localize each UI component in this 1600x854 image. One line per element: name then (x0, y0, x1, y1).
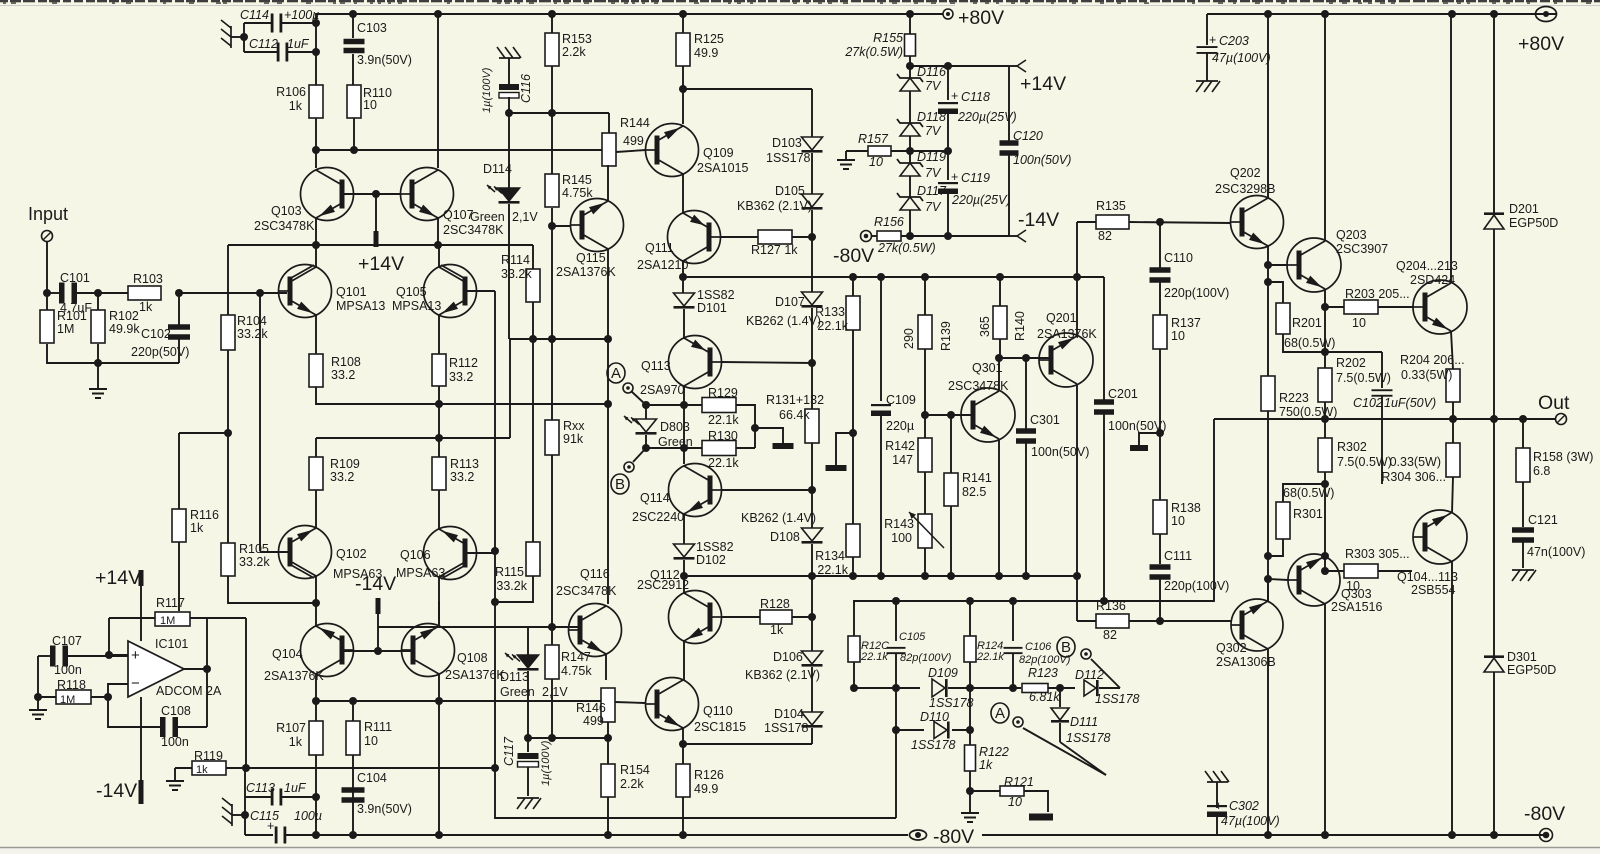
node R135/C110 (1156, 218, 1164, 226)
svg-text:C201: C201 (1108, 387, 1138, 401)
wire R126 down (682, 797, 684, 835)
svg-text:82.5: 82.5 (962, 485, 986, 499)
svg-text:C102: C102 (1353, 396, 1383, 410)
resistor R204 (1446, 369, 1460, 402)
node Out R202 (1321, 415, 1329, 423)
resistor R139 (924, 277, 926, 315)
wire R120 top (853, 601, 855, 636)
svg-text:220p(100V): 220p(100V) (1164, 286, 1229, 300)
wire row433 (179, 432, 228, 434)
svg-text:Q113: Q113 (641, 359, 671, 373)
svg-text:2SC2912: 2SC2912 (637, 578, 689, 592)
transistor Q103 2SC3478K (301, 168, 354, 221)
resistor R153 (551, 14, 553, 33)
svg-text:Q114: Q114 (640, 491, 670, 505)
wire Q104/Q108 base row (343, 650, 411, 652)
wire +80V top bus right (1207, 13, 1556, 15)
wire R112 down (438, 386, 440, 404)
wire Q103 base row (343, 193, 401, 195)
svg-text:49.9: 49.9 (694, 46, 718, 60)
wire D107-R131 (811, 308, 813, 409)
ground C117 (517, 797, 539, 799)
wire R140 down (999, 339, 1001, 358)
svg-text:2SC3478K: 2SC3478K (443, 223, 504, 237)
node row688 R124 (966, 684, 974, 692)
svg-text:R119: R119 (194, 749, 223, 763)
resistor R135 row (1077, 221, 1096, 223)
svg-text:D105: D105 (775, 184, 805, 198)
node rail D301 (1490, 831, 1498, 839)
wire R303 row (1325, 570, 1344, 572)
node R113 row438 (435, 434, 443, 442)
wire R201 bottom (1283, 334, 1325, 352)
svg-text:D106: D106 (773, 650, 803, 664)
node bus Q203 (1321, 10, 1329, 18)
svg-text:1SS82: 1SS82 (697, 288, 735, 302)
ground C121 (1512, 569, 1534, 571)
wire D106-D104 (811, 667, 813, 712)
wire R139 down (924, 349, 926, 438)
node C104 rail (349, 831, 357, 839)
wire Q201 emitter top (1076, 222, 1078, 336)
node row730 left (892, 726, 900, 734)
node D803 top (642, 401, 650, 409)
resistor R110 (347, 85, 361, 118)
svg-text:A: A (611, 365, 621, 382)
svg-text:Q115: Q115 (576, 251, 606, 265)
wire gnd bar stub (836, 433, 853, 465)
resistor R303 (1344, 564, 1378, 578)
wire IC101 power (140, 586, 142, 641)
rail +14V tap (375, 194, 377, 231)
wire Q301 emitter (998, 439, 1000, 575)
resistor R108 (309, 354, 323, 387)
wire row448 (646, 447, 702, 449)
wire bar tap (755, 428, 783, 443)
resistor R117 (155, 612, 190, 626)
node rail601 R124 (966, 597, 974, 605)
svg-text:R145: R145 (562, 173, 592, 187)
node R201 tap (1264, 278, 1272, 286)
wire Q110 emitter (682, 728, 684, 744)
wire R106/R110 bottom row (315, 118, 317, 150)
node Q203 base tap (1264, 261, 1272, 269)
resistor R109 (309, 457, 323, 490)
svg-text:2SD424: 2SD424 (1410, 273, 1455, 287)
svg-text:220µ(25V): 220µ(25V) (951, 193, 1011, 207)
node rail Q302 (1264, 831, 1272, 839)
resistor R115 (526, 542, 540, 576)
svg-text:R140: R140 (1013, 311, 1027, 341)
wire C118 branch (910, 65, 948, 67)
node R121 row (966, 787, 974, 795)
op-amp IC101 ADCOM 2A (128, 641, 184, 697)
wire Q301 collector (998, 358, 1000, 391)
svg-text:1M: 1M (160, 615, 175, 627)
svg-text:Q111: Q111 (645, 241, 674, 255)
wire Q201 base row (999, 357, 1050, 359)
wire R303 right (1378, 570, 1412, 572)
svg-text:1M: 1M (57, 322, 74, 336)
node Q110 emitter row (679, 740, 687, 748)
svg-text:R115: R115 (495, 565, 524, 579)
capacitor C116 (499, 84, 519, 90)
svg-text:R127 1k: R127 1k (751, 243, 798, 257)
node bus277 R140 (996, 273, 1004, 281)
resistor R102 (97, 293, 99, 310)
svg-text:10: 10 (1171, 514, 1185, 528)
wire Q202 collector (1267, 14, 1269, 198)
svg-text:+80V: +80V (1518, 33, 1564, 55)
wire Q104H collector (1451, 561, 1453, 835)
svg-text:R128: R128 (760, 597, 790, 611)
wire opamp plus input (109, 618, 128, 655)
wire -14V row (901, 235, 1009, 237)
border top ruler strip (0, 0, 8, 2)
svg-text:MPSA13: MPSA13 (392, 299, 441, 313)
wire Q105 base (466, 290, 495, 292)
node C118 top (944, 62, 952, 70)
transistor Q111 2SA1210 (668, 211, 721, 264)
wire C119 down (947, 193, 949, 236)
wire gnd bar right stub (1139, 433, 1160, 445)
node bus575 (680, 572, 688, 580)
wire R155 down (909, 56, 911, 78)
wire D105-D107 (811, 210, 813, 292)
node R115/base tie (491, 598, 499, 606)
svg-text:R203 205...: R203 205... (1345, 287, 1410, 301)
resistor R131+132 (805, 409, 819, 443)
svg-text:2.2k: 2.2k (620, 777, 644, 791)
svg-text:C101: C101 (60, 271, 90, 285)
wire R123 right (1048, 687, 1075, 689)
transistor Q107 2SC3478K (401, 168, 454, 221)
wire Q107 collector to +80V (437, 14, 439, 168)
node opamp out (203, 665, 211, 673)
resistor R158 (1522, 419, 1524, 448)
wire R302 top (1324, 419, 1326, 438)
diode D105 KB362 (802, 194, 823, 207)
capacitor C107 (38, 655, 51, 657)
svg-text:Q203: Q203 (1336, 228, 1367, 242)
wire feedback down (259, 293, 261, 551)
svg-text:R146: R146 (576, 701, 606, 715)
wire R120 down (853, 662, 855, 688)
wire base tie Q105-Q106 (494, 291, 496, 551)
capacitor C301 (1025, 358, 1027, 429)
wire opamp out (184, 668, 207, 670)
wire A diag bottom (1023, 728, 1106, 775)
node row688 R120 (850, 684, 858, 692)
node row404 right (604, 400, 612, 408)
svg-text:D119: D119 (917, 150, 946, 164)
svg-text:-14V: -14V (355, 573, 396, 595)
node base feedback (491, 764, 499, 772)
svg-text:C203: C203 (1219, 34, 1249, 48)
svg-text:365: 365 (978, 316, 992, 337)
node bus277 R139 (921, 273, 929, 281)
wire R155 top (909, 14, 911, 34)
node Q107 collector bus (434, 10, 442, 18)
svg-text:R101: R101 (57, 309, 87, 323)
svg-text:Q109: Q109 (703, 146, 734, 160)
svg-text:+: + (951, 89, 958, 103)
svg-text:3.9n(50V): 3.9n(50V) (357, 802, 412, 816)
svg-text:22.1k: 22.1k (817, 319, 848, 333)
svg-text:KB362 (2.1V): KB362 (2.1V) (737, 199, 812, 213)
resistor R134 (846, 524, 860, 557)
node bus575 C109 (877, 572, 885, 580)
svg-text:Rxx: Rxx (563, 419, 585, 433)
node row448 (680, 444, 688, 452)
node bus575 Q301 (995, 572, 1003, 580)
svg-text:R143: R143 (884, 517, 914, 531)
svg-text:+14V: +14V (95, 567, 141, 589)
ground bar R130 (773, 443, 794, 449)
diode D201 EGP50D (1493, 14, 1495, 213)
svg-text:D101: D101 (697, 301, 727, 315)
wire Q106 base (466, 552, 495, 554)
node R111 top (349, 697, 357, 705)
svg-text:R126: R126 (694, 768, 724, 782)
diode D301 EGP50D (1493, 419, 1495, 656)
svg-text:R138: R138 (1171, 501, 1201, 515)
resistor R104 (227, 245, 229, 315)
capacitor C114 (271, 14, 274, 33)
svg-text:Q101: Q101 (336, 285, 367, 299)
capacitor C203 (1206, 14, 1208, 45)
wire R203 right (1378, 306, 1414, 308)
svg-text:D108: D108 (770, 530, 800, 544)
svg-text:R301: R301 (1293, 507, 1323, 521)
node bus D201 (1490, 10, 1498, 18)
ground C116 (499, 57, 520, 59)
diode D108 KB262 (802, 528, 823, 541)
terminal -80V mid (861, 231, 872, 242)
terminal +80V left (943, 9, 953, 19)
svg-text:Q108: Q108 (457, 651, 488, 665)
node Q115 base (548, 222, 556, 230)
node Q106 base tie (491, 547, 499, 555)
resistor R126 (682, 744, 684, 764)
wire Q111 base row (720, 236, 758, 238)
node Q103 emitter row (312, 241, 320, 249)
wire R129 right (736, 405, 755, 448)
svg-text:33.2k: 33.2k (237, 327, 268, 341)
svg-text:R111: R111 (364, 720, 392, 734)
resistor R145 (545, 174, 559, 207)
node letter B (611, 474, 629, 494)
wire D101 to Q113 (683, 309, 685, 338)
transistor Q303 2SA1516 (1288, 554, 1340, 606)
svg-text:1k: 1k (979, 758, 993, 772)
node row738 R146 (604, 734, 612, 742)
wire R117 row (109, 617, 155, 619)
wire C302 down (1216, 817, 1218, 835)
led D113 (518, 655, 539, 668)
svg-text:1SS178: 1SS178 (929, 696, 974, 710)
node bus575 R141 (947, 572, 955, 580)
svg-text:R202: R202 (1336, 356, 1366, 370)
svg-text:R158 (3W): R158 (3W) (1533, 450, 1593, 464)
svg-text:D116: D116 (917, 65, 946, 79)
svg-text:R302: R302 (1337, 440, 1367, 454)
svg-text:C111: C111 (1164, 549, 1192, 563)
svg-text:1SS178: 1SS178 (766, 151, 811, 165)
svg-text:-14V: -14V (96, 780, 137, 802)
wire rail601 (854, 419, 1214, 603)
node bus277 R133 (849, 273, 857, 281)
wire Q108 collector down (438, 674, 440, 835)
terminal -80V right (1540, 829, 1553, 842)
svg-text:499: 499 (583, 714, 604, 728)
node rail Q104H (1448, 831, 1456, 839)
node R106 bottom (312, 146, 320, 154)
terminal Out (1556, 414, 1567, 425)
wire R201 stub (1268, 282, 1283, 303)
svg-text:R103: R103 (133, 272, 163, 286)
wire R124 top (969, 601, 971, 636)
svg-text:C108: C108 (161, 704, 191, 718)
resistor R143 variable (918, 514, 932, 548)
svg-text:Green: Green (500, 685, 535, 699)
ground bar mid (826, 465, 847, 471)
svg-text:D114: D114 (483, 162, 512, 176)
wire D104 down (811, 728, 813, 744)
svg-text:68(0.5W): 68(0.5W) (1284, 336, 1335, 350)
wire B diag bottom (1091, 659, 1120, 688)
svg-text:Green: Green (658, 435, 693, 449)
node R137/R138 tap (1156, 429, 1164, 437)
svg-text:220µ(25V): 220µ(25V) (957, 110, 1017, 124)
resistor R302 (1318, 438, 1332, 472)
wire R141 down (950, 506, 952, 575)
wire opamp out fb (245, 618, 247, 768)
node bus Q204 (1448, 10, 1456, 18)
resistor R128 (760, 610, 792, 624)
transistor Q110 2SC1815 (646, 678, 699, 731)
node bus575 R134 (849, 572, 857, 580)
svg-text:D201: D201 (1509, 202, 1539, 216)
svg-text:1k: 1k (289, 99, 303, 113)
wire rail C302 (1206, 834, 1217, 836)
node row339 R114 (529, 335, 537, 343)
wire R138 down (1159, 534, 1161, 564)
resistor R116 (178, 433, 180, 509)
wire R154 down (607, 797, 609, 835)
svg-text:47n(100V): 47n(100V) (1527, 545, 1585, 559)
svg-text:750(0.5W): 750(0.5W) (1279, 405, 1337, 419)
transistor Q114 2SC2240 (669, 464, 722, 517)
wire A diagonal (631, 391, 646, 405)
svg-text:A: A (995, 705, 1005, 722)
svg-text:R137: R137 (1171, 316, 1201, 330)
svg-text:C102: C102 (141, 327, 171, 341)
svg-text:82: 82 (1098, 229, 1112, 243)
svg-text:1k: 1k (190, 521, 204, 535)
svg-text:3.9n(50V): 3.9n(50V) (357, 53, 412, 67)
svg-text:C114: C114 (240, 8, 269, 22)
node opamp minus fb (104, 693, 112, 701)
wire input gnd row (47, 344, 179, 363)
wire opamp minus input (108, 684, 160, 727)
wire rail -80V right (982, 834, 1546, 836)
node R125 bus (679, 10, 687, 18)
svg-text:27k(0.5W): 27k(0.5W) (877, 241, 936, 255)
wire R302 down (1324, 472, 1326, 571)
ground (C114/C112 loop) (230, 26, 232, 48)
svg-text:22.1k: 22.1k (708, 413, 739, 427)
resistor R133 (852, 277, 854, 296)
capacitor C102 out (1381, 352, 1383, 388)
wire R144 to Q109 base (616, 150, 646, 152)
node rail601 C201 (1100, 597, 1108, 605)
wire Q303 base row (1268, 579, 1288, 580)
resistor R101 (46, 293, 48, 310)
wire Q204 collector (1451, 14, 1452, 283)
wire D102 to Q112 (683, 560, 685, 593)
svg-text:KB362 (2.1V): KB362 (2.1V) (745, 668, 820, 682)
wire R301 bottom (1268, 539, 1283, 556)
wire row339 (509, 338, 608, 340)
svg-text:2SB554: 2SB554 (1411, 583, 1456, 597)
transistor Q201 2SA1376K (1039, 333, 1093, 387)
wire Q104 collector top (315, 603, 317, 626)
ground C113/C115 (231, 804, 233, 826)
wire R118 (38, 696, 56, 698)
svg-text:2,1V: 2,1V (512, 210, 538, 224)
svg-text:R133: R133 (815, 305, 845, 319)
svg-text:D111: D111 (1070, 715, 1098, 729)
node R107 top (312, 697, 320, 705)
svg-text:R304 306...: R304 306... (1381, 470, 1446, 484)
svg-text:1µ(100V): 1µ(100V) (481, 67, 493, 113)
svg-text:R118: R118 (57, 678, 86, 692)
svg-text:D112: D112 (1075, 668, 1104, 682)
svg-text:499: 499 (623, 134, 644, 148)
svg-text:2SC1815: 2SC1815 (694, 720, 746, 734)
node row433 (224, 429, 232, 437)
svg-text:Q105: Q105 (396, 285, 427, 299)
wire row701 to Q110 (615, 702, 645, 703)
node R153 bus (548, 10, 556, 18)
svg-text:22.1k: 22.1k (976, 651, 1004, 663)
wire Q102 emitter down (315, 576, 317, 603)
svg-text:R135: R135 (1096, 199, 1126, 213)
resistor R114 (532, 245, 534, 269)
resistor R130 (702, 441, 736, 456)
resistor R124 (964, 636, 976, 662)
terminal Input (42, 231, 53, 242)
svg-text:Q204...213: Q204...213 (1396, 259, 1458, 273)
svg-text:C121: C121 (1528, 513, 1558, 527)
svg-text:EGP50D: EGP50D (1507, 663, 1556, 677)
svg-text:220µ: 220µ (886, 419, 914, 433)
wire -14V arrow (1009, 235, 1017, 237)
svg-text:R112: R112 (449, 356, 478, 370)
svg-text:1µ(100V): 1µ(100V) (540, 740, 552, 786)
wire D112 right (1099, 687, 1120, 689)
node bus277 Q201 (1073, 273, 1081, 281)
svg-text:1k: 1k (770, 623, 784, 637)
wire Q101 collector (315, 245, 317, 267)
wire R102 to gnd row (97, 344, 99, 363)
node R129/R130 tie (751, 424, 759, 432)
transistor Q301 2SC3478K (961, 388, 1015, 442)
svg-text:KB262 (1.4V): KB262 (1.4V) (746, 314, 821, 328)
svg-text:10: 10 (364, 734, 378, 748)
svg-text:C104: C104 (357, 771, 387, 785)
